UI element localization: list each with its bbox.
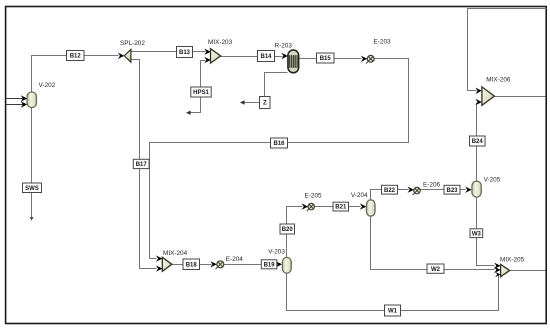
wire MIX-206 outlet to right edge xyxy=(495,96,546,98)
svg-text:W3: W3 xyxy=(472,231,482,237)
svg-text:B24: B24 xyxy=(472,139,484,145)
stream label B17 xyxy=(133,159,149,168)
stream label B15 xyxy=(317,53,335,63)
wire stream Z: open end / Z box to R-203 bottom inlet xyxy=(240,73,288,105)
svg-text:HPS1: HPS1 xyxy=(193,90,209,96)
svg-text:B16: B16 xyxy=(273,141,285,147)
stream label B23 xyxy=(444,185,460,194)
stream label B14 xyxy=(258,51,275,62)
svg-text:E-206: E-206 xyxy=(423,182,440,189)
svg-text:SWS: SWS xyxy=(25,186,39,192)
wire stream B13: SPL-202 to MIX-203 top input xyxy=(131,49,211,55)
wire stream SWS: V-202 bottom, open end xyxy=(30,108,34,221)
heat exchanger E-206 xyxy=(413,182,441,196)
svg-text:E-204: E-204 xyxy=(226,256,243,263)
mixer MIX-204 xyxy=(162,250,187,271)
heat exchanger E-205 xyxy=(305,193,322,212)
svg-text:E-203: E-203 xyxy=(374,38,391,45)
wire stream B15: R-203 to E-203 xyxy=(300,56,368,62)
stream label B12 xyxy=(67,51,85,61)
wire stream B16: E-203 around to MIX-204 upper input xyxy=(150,59,409,262)
wire stream B17: SPL-202 bottom to MIX-204 lower input xyxy=(131,60,163,272)
wire stream B24: V-205 top to MIX-206 lower input xyxy=(475,99,482,182)
svg-text:B20: B20 xyxy=(282,227,294,233)
svg-text:B23: B23 xyxy=(446,188,458,194)
wire stream B14: MIX-203 to R-203 xyxy=(221,53,288,59)
wire stream B18: MIX-204 to E-204 xyxy=(172,261,217,267)
heat exchanger E-203 xyxy=(366,38,391,63)
svg-text:B12: B12 xyxy=(70,54,82,60)
wire stream B22: V-204 top to E-206 xyxy=(371,187,415,201)
stream label B13 xyxy=(177,47,193,58)
svg-text:B13: B13 xyxy=(179,50,191,56)
reactor R-203 xyxy=(275,43,299,73)
vessel V-205 xyxy=(472,177,501,198)
stream label B19 xyxy=(261,260,277,269)
svg-text:W1: W1 xyxy=(388,309,398,315)
stream label B20 xyxy=(280,224,295,234)
stream label Z xyxy=(260,97,271,109)
stream label W2 xyxy=(427,264,444,273)
svg-text:MIX-203: MIX-203 xyxy=(208,39,233,46)
mixer MIX-203 xyxy=(208,39,233,63)
splitter SPL-202 xyxy=(120,40,145,62)
wire stream W3: V-205 bottom to MIX-205 top input xyxy=(477,197,501,270)
heat exchanger E-204 xyxy=(216,256,244,269)
wire recycle stream from right edge into MIX-206 top input xyxy=(468,9,547,95)
svg-text:W2: W2 xyxy=(431,267,441,273)
svg-text:MIX-206: MIX-206 xyxy=(486,77,511,84)
svg-text:V-202: V-202 xyxy=(39,82,56,89)
stream label B21 xyxy=(333,202,349,211)
svg-text:B17: B17 xyxy=(136,162,148,168)
stream label B18 xyxy=(183,259,200,270)
vessel V-202 xyxy=(27,82,56,108)
svg-text:Z: Z xyxy=(263,101,267,107)
svg-text:MIX-204: MIX-204 xyxy=(163,250,188,257)
svg-text:B15: B15 xyxy=(320,56,332,62)
stream label B16 xyxy=(271,138,288,148)
wire stream W2: V-204 bottom to MIX-205 middle input xyxy=(371,216,501,274)
stream label B24 xyxy=(470,136,486,146)
stream label SWS xyxy=(23,183,42,193)
svg-text:SPL-202: SPL-202 xyxy=(120,40,145,47)
wire feed1 into V-202 xyxy=(7,95,28,101)
svg-text:V-205: V-205 xyxy=(484,177,501,184)
stream label W3 xyxy=(470,229,483,238)
wire stream B23: E-206 to V-205 xyxy=(421,187,472,193)
vessel V-203 xyxy=(268,248,291,273)
svg-text:B18: B18 xyxy=(186,262,198,268)
svg-text:V-203: V-203 xyxy=(268,248,285,255)
vessel V-204 xyxy=(351,192,375,216)
svg-text:MIX-205: MIX-205 xyxy=(500,257,525,264)
wire stream HPS1: open end up to MIX-203 lower input xyxy=(186,57,211,115)
wire stream B19: E-204 to V-203 xyxy=(224,261,283,267)
svg-text:E-205: E-205 xyxy=(305,193,322,200)
stream label HPS1 xyxy=(191,87,211,97)
wire stream W1: V-203 bottom to MIX-205 lower input xyxy=(287,272,501,311)
mixer MIX-205 xyxy=(500,257,525,277)
wire stream B12: V-202 top to SPL-202 xyxy=(32,53,125,93)
mixer MIX-206 xyxy=(482,77,511,106)
stream label W1 xyxy=(385,305,401,316)
svg-text:V-204: V-204 xyxy=(351,192,368,199)
svg-text:R-203: R-203 xyxy=(275,43,293,50)
svg-text:B14: B14 xyxy=(260,54,272,60)
svg-text:B21: B21 xyxy=(335,205,347,211)
wire feed2 into V-202 xyxy=(7,101,28,107)
svg-text:B19: B19 xyxy=(264,262,276,268)
wire stream B21: E-205 to V-204 xyxy=(315,203,367,209)
wire MIX-205 outlet to right edge xyxy=(510,270,546,272)
stream label B22 xyxy=(382,185,398,194)
wire stream B20: V-203 top to E-205 xyxy=(287,203,309,257)
svg-text:B22: B22 xyxy=(384,188,396,194)
